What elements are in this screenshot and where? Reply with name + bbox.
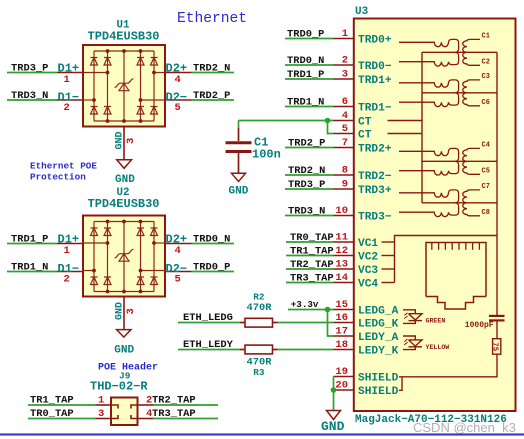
- svg-text:5: 5: [175, 102, 181, 114]
- bottom blue rule: [0, 433, 524, 435]
- svg-text:LEDG_K: LEDG_K: [358, 319, 399, 331]
- svg-text:18: 18: [335, 339, 348, 351]
- resistor 75: [493, 339, 501, 355]
- svg-text:TRD2_N: TRD2_N: [193, 63, 230, 75]
- svg-text:C4: C4: [482, 141, 490, 149]
- U3 pin 4: [334, 120, 354, 122]
- U3 pin 7: [334, 147, 354, 149]
- svg-text:VC2: VC2: [358, 252, 378, 264]
- wire TRD3_P: [7, 72, 57, 74]
- svg-text:+3.3v: +3.3v: [291, 299, 319, 310]
- svg-text:TRD1_N: TRD1_N: [11, 262, 48, 274]
- node VC bus to secondary bus: [395, 236, 498, 283]
- U3 pin 12: [334, 255, 354, 257]
- svg-text:VC3: VC3: [358, 265, 378, 277]
- U3 pin 6: [334, 106, 354, 108]
- svg-text:3: 3: [98, 408, 104, 420]
- U3 pin 15: [334, 309, 354, 311]
- J9 pin 2: [138, 404, 154, 406]
- wire SHIELD to GND: [333, 377, 335, 411]
- junction SHIELD: [331, 387, 337, 393]
- svg-text:LEDY_K: LEDY_K: [358, 346, 399, 358]
- U1 pin D1- (2): [57, 99, 83, 101]
- U1 pin D2- (5): [165, 99, 192, 101]
- svg-text:SHIELD: SHIELD: [358, 386, 399, 398]
- svg-text:TRD1+: TRD1+: [358, 75, 392, 87]
- svg-text:TR1_TAP: TR1_TAP: [30, 395, 74, 407]
- svg-text:GREEN: GREEN: [426, 318, 446, 325]
- wire TRD1_N: [7, 271, 57, 273]
- U1 pin D2+ (4): [165, 72, 192, 74]
- svg-text:2: 2: [342, 55, 348, 67]
- svg-text:470R: 470R: [247, 302, 273, 314]
- wire TRD0_P to U3: [285, 38, 334, 40]
- svg-text:16: 16: [335, 312, 348, 324]
- svg-text:TR1_TAP: TR1_TAP: [290, 246, 334, 258]
- resistor R2: [240, 318, 278, 327]
- U3 pin 2: [334, 64, 354, 66]
- LED yellow: [403, 336, 422, 350]
- wire TR0_TAP to U3: [286, 241, 334, 243]
- U2 ground symbol: [117, 330, 131, 338]
- svg-text:13: 13: [335, 259, 348, 271]
- LED green: [403, 310, 422, 324]
- svg-text:3: 3: [125, 138, 137, 144]
- svg-text:LEDG_A: LEDG_A: [358, 306, 399, 318]
- svg-text:TR0_TAP: TR0_TAP: [290, 232, 334, 244]
- ground (C1): [232, 173, 246, 181]
- wire TRD3_N to U3: [285, 215, 334, 217]
- wire T1 center tap: [422, 51, 497, 53]
- svg-text:TRD0_N: TRD0_N: [287, 55, 324, 67]
- U1 internals: [83, 49, 165, 123]
- svg-text:GND: GND: [114, 345, 134, 357]
- svg-text:4: 4: [342, 110, 348, 122]
- svg-text:1: 1: [342, 28, 348, 40]
- U2 pin D1+ (1): [57, 243, 83, 245]
- wire TRD2_N to U3: [285, 174, 334, 176]
- U3 pin 11: [334, 241, 354, 243]
- svg-text:C8: C8: [482, 209, 490, 217]
- U3 pin 1: [334, 38, 354, 40]
- svg-text:100n: 100n: [252, 148, 281, 162]
- wire VC1 internal: [382, 241, 395, 243]
- wire TR1_TAP: [28, 404, 96, 406]
- svg-text:C6: C6: [482, 99, 490, 107]
- svg-text:THD−02−R: THD−02−R: [90, 380, 148, 394]
- svg-text:7: 7: [342, 137, 348, 149]
- svg-text:TRD2+: TRD2+: [358, 144, 392, 156]
- svg-text:1000pF: 1000pF: [465, 321, 494, 330]
- wire CT branch to pin5: [328, 121, 334, 134]
- U2 pin GND (3): [123, 297, 125, 330]
- J9 pin 1: [96, 404, 112, 406]
- U2 pin D2+ (4): [165, 243, 192, 245]
- svg-text:14: 14: [335, 272, 348, 284]
- junction +3.3v: [325, 307, 331, 313]
- svg-text:R3: R3: [253, 367, 265, 378]
- svg-text:C7: C7: [482, 183, 490, 191]
- svg-text:5: 5: [175, 274, 181, 286]
- wire T3 center tap: [422, 160, 497, 162]
- svg-text:TRD3_N: TRD3_N: [288, 206, 325, 218]
- svg-text:4: 4: [175, 74, 181, 86]
- wire +3.3v to pin17: [328, 310, 334, 337]
- svg-text:TR2_TAP: TR2_TAP: [290, 259, 334, 271]
- svg-text:TR3_TAP: TR3_TAP: [290, 273, 334, 285]
- svg-text:11: 11: [335, 232, 348, 244]
- U3 pin 18: [334, 349, 354, 351]
- svg-text:TR2_TAP: TR2_TAP: [152, 395, 196, 407]
- U3 pin 17: [334, 335, 354, 337]
- svg-text:20: 20: [335, 380, 348, 392]
- svg-text:CT: CT: [358, 130, 372, 142]
- svg-text:10: 10: [335, 205, 348, 217]
- svg-text:TRD2_P: TRD2_P: [288, 138, 325, 150]
- wire VC3 internal: [382, 268, 395, 270]
- svg-text:Ethernet: Ethernet: [177, 11, 247, 27]
- svg-text:GND: GND: [115, 131, 126, 149]
- svg-text:2: 2: [64, 102, 70, 114]
- U3 pin 19: [334, 376, 354, 378]
- wire VC2 internal: [382, 255, 395, 257]
- svg-text:Ethernet POE: Ethernet POE: [30, 161, 97, 172]
- J9 pin 4: [138, 418, 154, 420]
- wire CT bus from C1 to U3 pin4: [239, 120, 334, 122]
- transformer T3: [399, 148, 480, 175]
- svg-text:1: 1: [64, 245, 70, 257]
- wire TRD2_P to U3: [285, 147, 334, 149]
- wire T4 center tap: [422, 202, 497, 204]
- svg-text:TRD0_P: TRD0_P: [193, 262, 230, 274]
- svg-text:TR3_TAP: TR3_TAP: [152, 408, 196, 420]
- svg-text:75: 75: [490, 342, 498, 352]
- wire TRD1_P to U3: [285, 78, 334, 80]
- svg-text:LEDY_A: LEDY_A: [358, 332, 399, 344]
- wire TR2_TAP: [153, 404, 218, 406]
- svg-text:TRD2_P: TRD2_P: [193, 90, 230, 102]
- svg-text:C5: C5: [482, 168, 490, 176]
- ground (shield): [327, 411, 341, 420]
- svg-text:TRD3_P: TRD3_P: [288, 179, 325, 191]
- svg-text:6: 6: [342, 96, 348, 108]
- svg-text:TRD3_N: TRD3_N: [11, 90, 48, 102]
- svg-text:TRD1_N: TRD1_N: [287, 97, 324, 109]
- svg-text:12: 12: [335, 245, 348, 257]
- svg-text:17: 17: [335, 326, 348, 338]
- U3 pin 14: [334, 282, 354, 284]
- svg-text:TRD2−: TRD2−: [358, 171, 392, 183]
- U3 pin 10: [334, 215, 354, 217]
- svg-text:TPD4EUSB30: TPD4EUSB30: [88, 29, 160, 43]
- wire TRD2_P: [192, 99, 235, 101]
- svg-text:GND: GND: [115, 302, 126, 320]
- shield line inside: [399, 354, 497, 390]
- svg-text:VC4: VC4: [358, 279, 378, 291]
- svg-text:19: 19: [335, 366, 348, 378]
- capacitor C1: [226, 128, 252, 173]
- wire TR3_TAP: [153, 418, 218, 420]
- U1 pin GND (3): [123, 127, 125, 160]
- resistor R3: [240, 345, 278, 354]
- transformer T2: [399, 80, 480, 107]
- svg-text:TPD4EUSB30: TPD4EUSB30: [88, 197, 160, 211]
- svg-text:VC1: VC1: [358, 238, 378, 250]
- U1 pin D1+ (1): [57, 72, 83, 74]
- U3 pin 13: [334, 268, 354, 270]
- wire TRD1_N to U3: [285, 106, 334, 108]
- svg-text:Protection: Protection: [30, 171, 86, 182]
- U2 pin D2- (5): [165, 271, 192, 273]
- U3 pin 3: [334, 78, 354, 80]
- capacitor 1000pF: [489, 316, 505, 339]
- U2 internals: [83, 220, 165, 294]
- wire R3 to pin18: [278, 349, 334, 351]
- svg-text:TRD1−: TRD1−: [358, 103, 392, 115]
- svg-text:TRD0−: TRD0−: [358, 61, 392, 73]
- wire +3.3v: [288, 309, 334, 311]
- wire TR2_TAP to U3: [286, 268, 334, 270]
- wire TR1_TAP to U3: [286, 255, 334, 257]
- svg-text:4: 4: [175, 245, 181, 257]
- U3 body: [354, 19, 516, 412]
- wire TRD3_N: [7, 99, 57, 101]
- wire C1 top: [238, 121, 240, 129]
- svg-text:TRD0_P: TRD0_P: [287, 29, 324, 41]
- U1 ground symbol: [117, 160, 132, 169]
- wire ETH_LEDG: [178, 322, 240, 324]
- svg-text:TRD1_P: TRD1_P: [11, 234, 48, 246]
- wire TRD0_N: [192, 243, 235, 245]
- RJ45 jack front view: [426, 243, 486, 310]
- U3 pin numbers: [335, 28, 348, 392]
- svg-text:1: 1: [64, 74, 70, 86]
- svg-text:C2: C2: [482, 59, 490, 67]
- wire TRD0_P: [192, 271, 235, 273]
- svg-text:TRD0_N: TRD0_N: [193, 234, 230, 246]
- wire TR0_TAP: [28, 418, 96, 420]
- wire TRD3_P to U3: [285, 188, 334, 190]
- svg-text:8: 8: [342, 165, 348, 177]
- svg-text:2: 2: [64, 274, 70, 286]
- U3 pin 8: [334, 174, 354, 176]
- svg-text:GND: GND: [229, 185, 249, 197]
- svg-text:TRD3−: TRD3−: [358, 212, 392, 224]
- svg-text:TRD0+: TRD0+: [358, 35, 392, 47]
- U3 pin 16: [334, 322, 354, 324]
- wire R2 to pin16: [278, 322, 334, 324]
- J9 pin 3: [96, 418, 112, 420]
- transformer T1: [399, 39, 480, 66]
- svg-text:C1: C1: [482, 32, 490, 40]
- wire CT pin4 internal: [388, 120, 423, 122]
- wire T2 center tap: [422, 92, 497, 94]
- svg-text:TR0_TAP: TR0_TAP: [30, 408, 74, 420]
- node primary center-tap bus: [421, 52, 423, 203]
- U2 body: [83, 216, 165, 297]
- wire ETH_LEDY: [178, 349, 240, 351]
- svg-text:ETH_LEDG: ETH_LEDG: [183, 312, 233, 324]
- U1 body: [83, 45, 165, 127]
- U3 pin 5: [334, 133, 354, 135]
- node secondary center-tap bus: [496, 52, 498, 316]
- wire TRD0_N to U3: [285, 64, 334, 66]
- svg-text:YELLOW: YELLOW: [426, 344, 450, 351]
- svg-text:CSDN @chen_k3: CSDN @chen_k3: [413, 420, 516, 435]
- svg-text:3: 3: [125, 308, 137, 314]
- svg-text:U3: U3: [355, 6, 369, 18]
- junction CT: [325, 118, 331, 124]
- wire TR3_TAP to U3: [286, 282, 334, 284]
- svg-text:9: 9: [342, 179, 348, 191]
- svg-text:GND: GND: [115, 174, 135, 186]
- J9 pin hooks: [111, 405, 138, 419]
- wire TRD1_P: [7, 243, 57, 245]
- wire CT pin5 internal: [388, 133, 423, 135]
- svg-text:TRD3_P: TRD3_P: [11, 63, 48, 75]
- svg-text:1: 1: [98, 395, 104, 407]
- svg-text:C3: C3: [482, 73, 490, 81]
- U2 pin D1- (2): [57, 271, 83, 273]
- svg-text:ETH_LEDY: ETH_LEDY: [183, 339, 234, 351]
- svg-text:TRD1_P: TRD1_P: [287, 69, 324, 81]
- svg-text:15: 15: [335, 299, 348, 311]
- U3 pin 9: [334, 188, 354, 190]
- svg-text:3: 3: [342, 69, 348, 81]
- svg-text:GND: GND: [321, 419, 345, 434]
- wire TRD2_N: [192, 72, 235, 74]
- wire VC4 internal: [382, 282, 395, 284]
- transformer T4: [399, 190, 480, 217]
- svg-text:5: 5: [342, 123, 348, 135]
- svg-text:TRD2_N: TRD2_N: [288, 165, 325, 177]
- svg-text:TRD3+: TRD3+: [358, 185, 392, 197]
- svg-text:SHIELD: SHIELD: [358, 373, 399, 385]
- U3 pin 20: [334, 389, 354, 391]
- svg-text:CT: CT: [358, 117, 372, 129]
- J9 body: [111, 398, 138, 426]
